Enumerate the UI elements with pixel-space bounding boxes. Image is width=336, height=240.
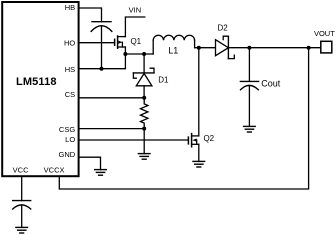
svg-text:VCC: VCC [13, 166, 29, 175]
svg-text:LO: LO [65, 135, 75, 144]
wire C_VCC to ground [21, 205, 23, 227]
svg-text:VOUT: VOUT [314, 29, 335, 38]
junction dot VOUT node [307, 46, 311, 50]
wire VCC pin to cap [21, 176, 23, 200]
wire LO pin to Q2 gate [79, 139, 188, 141]
inductor L1 [153, 35, 194, 55]
wire Q1 source node row [124, 47, 126, 54]
ground at GND pin [95, 170, 107, 176]
transistor Q2 [188, 134, 214, 147]
svg-text:VCCX: VCCX [44, 166, 65, 175]
svg-text:GND: GND [59, 150, 76, 159]
svg-text:HS: HS [65, 65, 75, 74]
svg-text:CS: CS [65, 90, 75, 99]
wire VOUT rail [228, 47, 320, 49]
VOUT port [314, 29, 335, 53]
svg-text:HO: HO [64, 39, 75, 48]
junction dot on HS line at cap [100, 67, 104, 71]
wire CSG node to ground [143, 129, 145, 154]
wire Q2 drain to switch rail [198, 48, 200, 136]
svg-text:HB: HB [65, 3, 75, 12]
junction dot Q2 drain node [197, 46, 201, 50]
junction dot Cout node [247, 46, 251, 50]
wire switch rail to D2 [195, 47, 216, 49]
wire VOUT node down and across to VCCX [59, 48, 308, 189]
svg-text:Q2: Q2 [203, 134, 214, 143]
ground below Cout [244, 126, 256, 132]
wire HS pin to source node [79, 54, 125, 69]
diode D1 schottky [133, 54, 169, 98]
ground below Rsense [138, 154, 150, 160]
svg-text:Q1: Q1 [130, 37, 141, 46]
VIN supply flag [125, 5, 144, 36]
svg-text:Cout: Cout [261, 79, 281, 89]
wire bootstrap cap to HS line [101, 26, 103, 69]
junction dot Q1 source node [123, 52, 127, 56]
wire CSG pin [79, 128, 144, 130]
capacitor Cout [240, 48, 280, 127]
wire HO pin to Q1 gate [79, 42, 114, 44]
wire HB pin to bootstrap cap [79, 8, 102, 22]
svg-text:D2: D2 [217, 24, 228, 33]
ground below C_VCC [16, 227, 28, 233]
junction dot D1 cathode node [142, 52, 146, 56]
op-amp U1 LM5118 IC body [2, 2, 78, 176]
junction dot CS node [142, 96, 146, 100]
svg-text:L1: L1 [168, 45, 178, 55]
ground below Q2 [193, 161, 205, 167]
junction dot CSG node [142, 127, 146, 131]
svg-text:VIN: VIN [129, 5, 142, 14]
capacitor C_HB bootstrap plates [91, 22, 112, 32]
wire Q2 source to ground [198, 144, 200, 161]
diode D2 schottky [216, 24, 235, 59]
resistor Rsense [141, 98, 148, 129]
wire GND pin to ground [79, 157, 101, 169]
capacitor C_VCC [13, 201, 31, 209]
svg-text:D1: D1 [158, 76, 169, 85]
svg-text:CSG: CSG [59, 125, 75, 134]
svg-text:LM5118: LM5118 [16, 76, 57, 88]
transistor Q1 [115, 36, 142, 48]
wire CS pin [79, 97, 144, 99]
